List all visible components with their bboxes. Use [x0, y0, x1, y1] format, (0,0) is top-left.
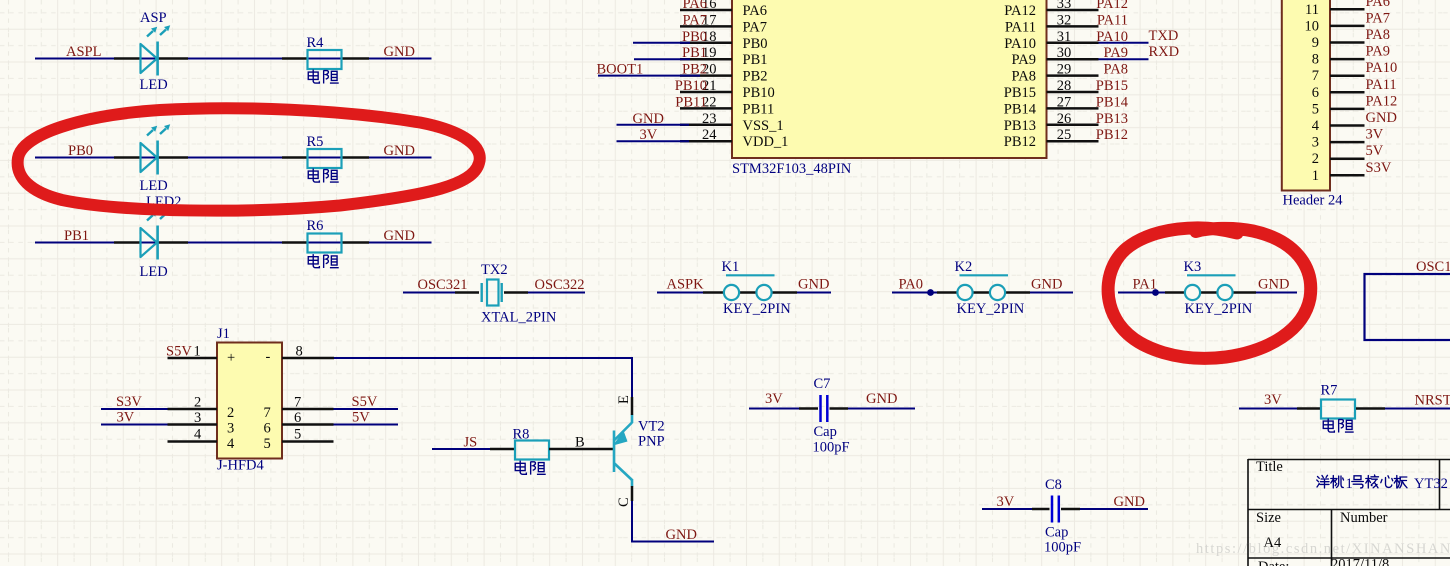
svg-text:PA7: PA7	[743, 19, 767, 35]
svg-text:PB13: PB13	[1004, 118, 1036, 134]
pin stubs LED2	[114, 156, 140, 159]
wire ASPL row1	[35, 58, 432, 60]
title block left border	[1247, 459, 1249, 566]
svg-text:PB12: PB12	[1004, 134, 1036, 150]
svg-text:28: 28	[1057, 78, 1072, 94]
svg-text:Number: Number	[1340, 510, 1388, 526]
svg-text:PA7: PA7	[683, 12, 707, 28]
svg-text:PA9: PA9	[1104, 45, 1128, 61]
svg-text:100pF: 100pF	[1044, 540, 1081, 556]
svg-text:PB15: PB15	[1096, 78, 1128, 94]
svg-text:PB2: PB2	[743, 69, 768, 85]
svg-text:24: 24	[702, 127, 717, 143]
svg-text:GND: GND	[384, 143, 415, 159]
svg-text:GND: GND	[1258, 277, 1289, 293]
svg-text:https://blog.csdn.net/XINANSHA: https://blog.csdn.net/XINANSHAN	[1196, 541, 1450, 557]
wire JS	[432, 448, 490, 450]
header net labels	[1366, 0, 1398, 176]
svg-text:PB2: PB2	[682, 62, 707, 78]
svg-text:3V: 3V	[1264, 392, 1282, 408]
svg-text:PA10: PA10	[1096, 29, 1128, 45]
svg-text:R4: R4	[307, 35, 325, 51]
svg-text:GND: GND	[798, 277, 829, 293]
svg-text:26: 26	[1057, 111, 1072, 127]
svg-text:OSC322: OSC322	[535, 277, 585, 293]
svg-text:2: 2	[1312, 151, 1319, 167]
svg-text:PB0: PB0	[682, 29, 707, 45]
svg-text:R8: R8	[513, 427, 530, 443]
svg-text:4: 4	[227, 436, 235, 452]
svg-text:KEY_2PIN: KEY_2PIN	[1185, 301, 1253, 317]
svg-text:5V: 5V	[1366, 143, 1384, 159]
wire GND C8	[1061, 508, 1080, 511]
svg-text:ASPK: ASPK	[667, 277, 705, 293]
svg-text:100pF: 100pF	[813, 440, 850, 456]
svg-text:C: C	[616, 497, 632, 507]
svg-text:5: 5	[264, 436, 271, 452]
svg-text:J-HFD4: J-HFD4	[217, 458, 264, 474]
svg-text:OSC321: OSC321	[418, 277, 468, 293]
value 电阻 R7	[1323, 418, 1353, 432]
svg-text:XTAL_2PIN: XTAL_2PIN	[481, 310, 557, 326]
title block low border	[1248, 557, 1450, 559]
pin stubs LED1	[114, 57, 140, 60]
svg-text:PB10: PB10	[743, 85, 775, 101]
wire 5V right	[334, 424, 399, 426]
svg-text:J1: J1	[217, 326, 230, 342]
svg-text:OSC1: OSC1	[1416, 259, 1450, 275]
svg-text:Title: Title	[1256, 459, 1283, 475]
svg-text:PB11: PB11	[743, 101, 775, 117]
title block divider	[1331, 510, 1333, 566]
svg-text:K2: K2	[955, 259, 973, 275]
svg-text:GND: GND	[1366, 110, 1397, 126]
svg-text:3V: 3V	[640, 127, 658, 143]
value 电阻 R6	[308, 254, 338, 268]
svg-text:GND: GND	[666, 527, 697, 543]
svg-text:6: 6	[1312, 85, 1319, 101]
wire 3V C7	[749, 408, 799, 410]
svg-text:R5: R5	[307, 134, 324, 150]
chip pin names left U1	[743, 3, 789, 150]
left net labels U1	[675, 0, 707, 110]
svg-text:5: 5	[294, 427, 301, 443]
svg-text:5V: 5V	[352, 410, 370, 426]
svg-text:VDD_1: VDD_1	[743, 134, 789, 150]
svg-text:GND: GND	[633, 111, 664, 127]
svg-text:C7: C7	[814, 376, 831, 392]
svg-text:9: 9	[1312, 35, 1319, 51]
svg-text:2: 2	[227, 405, 234, 421]
key K1 symbol	[724, 275, 775, 300]
J1 pin6 wire	[282, 423, 334, 426]
J1 pin3 wire	[168, 423, 218, 426]
resistor R7	[1321, 400, 1355, 419]
wire 3V VDD	[617, 140, 690, 142]
svg-text:K1: K1	[722, 259, 740, 275]
svg-text:ASPL: ASPL	[66, 44, 101, 60]
wire S3V	[101, 408, 168, 410]
wire GND VSS	[617, 124, 690, 126]
svg-text:23: 23	[702, 111, 717, 127]
left pin stubs U1	[680, 10, 732, 141]
svg-text:PB11: PB11	[675, 94, 707, 110]
VT2 collector pin black	[631, 486, 634, 501]
svg-text:PB1: PB1	[64, 228, 89, 244]
svg-text:3: 3	[227, 421, 234, 437]
svg-text:PA12: PA12	[1366, 93, 1398, 109]
svg-text:PA6: PA6	[1366, 0, 1390, 10]
svg-text:3V: 3V	[1366, 127, 1384, 143]
svg-text:PA6: PA6	[683, 0, 707, 12]
svg-text:JS: JS	[464, 435, 478, 451]
value 电阻 R5	[308, 168, 338, 182]
value 电阻 R8	[515, 461, 545, 475]
right net labels U1	[1096, 0, 1129, 143]
svg-text:KEY_2PIN: KEY_2PIN	[723, 301, 791, 317]
right pin numbers U1	[1057, 0, 1072, 143]
svg-text:PB12: PB12	[1096, 127, 1128, 143]
svg-text:3V: 3V	[117, 410, 135, 426]
header body	[1282, 0, 1330, 191]
wire TXD	[1099, 42, 1149, 44]
svg-text:YT32: YT32	[1414, 476, 1448, 492]
svg-text:30: 30	[1057, 45, 1072, 61]
svg-text:C8: C8	[1045, 477, 1062, 493]
svg-text:S5V: S5V	[352, 394, 378, 410]
J1 body	[217, 343, 282, 459]
svg-text:GND: GND	[1114, 494, 1145, 510]
svg-text:+: +	[227, 350, 235, 366]
wire OSC321	[403, 292, 455, 294]
svg-text:BOOT1: BOOT1	[597, 62, 644, 78]
pin stubs LED3	[114, 241, 140, 244]
resistor R6	[308, 234, 342, 253]
svg-text:STM32F103_48PIN: STM32F103_48PIN	[732, 161, 852, 177]
J1 pin1 wire	[168, 357, 218, 360]
red marker circle K3	[1108, 228, 1311, 358]
svg-text:GND: GND	[866, 391, 897, 407]
wire 3V J1	[101, 424, 168, 426]
svg-text:LED: LED	[140, 178, 168, 194]
svg-text:S5V: S5V	[166, 344, 192, 360]
J1 pin8 wire	[282, 357, 334, 360]
svg-text:PB13: PB13	[1096, 111, 1128, 127]
svg-text:TX2: TX2	[481, 262, 508, 278]
svg-text:PA8: PA8	[1104, 62, 1128, 78]
junction dot K3	[1152, 289, 1159, 296]
svg-text:VSS_1: VSS_1	[743, 118, 784, 134]
svg-text:33: 33	[1057, 0, 1072, 12]
capacitor C7 symbol	[821, 395, 828, 422]
svg-text:1: 1	[194, 344, 201, 360]
wire NRST	[1356, 407, 1385, 410]
J1 pin4 wire	[168, 440, 218, 443]
svg-text:KEY_2PIN: KEY_2PIN	[957, 301, 1025, 317]
key K3 symbol	[1185, 275, 1236, 300]
svg-text:3: 3	[1312, 135, 1319, 151]
pin stubs R6	[282, 241, 307, 244]
svg-text:PA11: PA11	[1005, 19, 1036, 35]
title block mid border	[1248, 509, 1450, 511]
svg-text:PA6: PA6	[743, 3, 767, 19]
svg-text:S3V: S3V	[116, 394, 142, 410]
svg-text:8: 8	[296, 344, 303, 360]
svg-text:R6: R6	[307, 218, 324, 234]
svg-text:E: E	[616, 395, 632, 404]
svg-text:PA8: PA8	[1366, 27, 1390, 43]
svg-text:PB14: PB14	[1096, 94, 1129, 110]
svg-text:1: 1	[1312, 168, 1319, 184]
J1 pin7 wire	[282, 408, 334, 411]
svg-text:PNP: PNP	[638, 434, 665, 450]
component box OSC1	[1365, 274, 1450, 340]
wire PA1	[1118, 292, 1165, 294]
svg-text:GND: GND	[1031, 277, 1062, 293]
svg-text:B: B	[575, 435, 585, 451]
pin stubs R5	[282, 156, 307, 159]
svg-text:PB14: PB14	[1004, 101, 1037, 117]
VT2 emitter arrow	[613, 431, 628, 446]
wire B base	[549, 448, 613, 451]
svg-text:R7: R7	[1321, 383, 1338, 399]
svg-text:3V: 3V	[997, 494, 1015, 510]
svg-text:27: 27	[1057, 94, 1072, 110]
capacitor C8 symbol	[1052, 496, 1059, 523]
svg-text:PA11: PA11	[1097, 12, 1128, 28]
svg-text:PA12: PA12	[1004, 3, 1036, 19]
title block top border	[1248, 459, 1450, 461]
svg-text:3: 3	[194, 410, 201, 426]
svg-text:2: 2	[194, 395, 201, 411]
VT2 emitter pin black	[631, 397, 634, 415]
chip body U1	[732, 0, 1047, 158]
transistor VT2	[614, 415, 632, 487]
header pin stubs	[1330, 9, 1365, 175]
svg-text:ASP: ASP	[140, 10, 167, 26]
svg-text:PA9: PA9	[1012, 52, 1036, 68]
wire 3V C8	[982, 508, 1032, 510]
svg-text:25: 25	[1057, 127, 1072, 143]
svg-text:2017/11/8: 2017/11/8	[1331, 557, 1389, 566]
wire PB1 row3	[35, 242, 432, 244]
svg-text:PA1: PA1	[1133, 277, 1157, 293]
svg-text:Date:: Date:	[1258, 559, 1289, 566]
svg-text:PB1: PB1	[682, 45, 707, 61]
svg-text:LED: LED	[140, 77, 168, 93]
svg-text:K3: K3	[1184, 259, 1202, 275]
right pin stubs U1	[1047, 10, 1099, 141]
svg-text:PB0: PB0	[68, 143, 93, 159]
svg-text:8: 8	[1312, 52, 1319, 68]
chip pin names right U1	[1004, 3, 1037, 150]
J1 pin2 wire	[168, 408, 218, 411]
svg-text:GND: GND	[384, 228, 415, 244]
svg-text:PA0: PA0	[899, 277, 923, 293]
svg-text:PB1: PB1	[743, 52, 768, 68]
wire collector to GND	[632, 501, 714, 542]
svg-text:10: 10	[1305, 18, 1320, 34]
svg-text:PB10: PB10	[675, 78, 707, 94]
svg-text:Cap: Cap	[1045, 525, 1068, 541]
svg-text:PB0: PB0	[743, 36, 768, 52]
value 电阻 R4	[308, 69, 338, 83]
svg-text:6: 6	[294, 410, 301, 426]
resistor R5	[308, 149, 342, 168]
svg-text:PA7: PA7	[1366, 10, 1390, 26]
svg-text:PA10: PA10	[1366, 60, 1398, 76]
wire PB0 to chip	[633, 42, 690, 44]
svg-text:NRST: NRST	[1415, 393, 1450, 409]
svg-text:PA12: PA12	[1096, 0, 1128, 12]
svg-text:1: 1	[1346, 476, 1353, 492]
crystal TX2 symbol	[481, 283, 483, 302]
svg-text:PA11: PA11	[1366, 77, 1397, 93]
wire BOOT1	[598, 75, 700, 77]
wire PB1 to chip	[634, 58, 690, 60]
svg-text:4: 4	[194, 427, 202, 443]
wire 3V R7	[1239, 408, 1297, 410]
wire RXD	[1099, 58, 1149, 60]
header pin numbers	[1305, 2, 1320, 184]
junction dot K2	[927, 289, 934, 296]
wire PA0	[892, 292, 937, 294]
J1 inside numbers	[227, 405, 271, 452]
svg-text:7: 7	[264, 405, 271, 421]
LED D2 symbol	[141, 124, 171, 174]
title text 洋桃1号核心板 YT32	[1317, 475, 1329, 488]
svg-text:32: 32	[1057, 12, 1072, 28]
red marker ellipse PB0 row	[18, 108, 480, 210]
wire J1 pin8 to VT2 emitter	[334, 358, 632, 398]
wire S5V right	[334, 408, 399, 410]
LED D1 symbol	[141, 25, 171, 75]
svg-text:PA10: PA10	[1004, 36, 1036, 52]
wire OSC322	[504, 291, 528, 294]
LED D3 symbol	[141, 209, 171, 259]
key K2 symbol	[957, 275, 1008, 300]
svg-text:PA9: PA9	[1366, 44, 1390, 60]
svg-text:TXD: TXD	[1149, 28, 1179, 44]
svg-text:11: 11	[1305, 2, 1319, 18]
pin stubs R4	[282, 57, 307, 60]
svg-text:Size: Size	[1256, 510, 1281, 526]
svg-text:4: 4	[1312, 118, 1320, 134]
wire ASPK	[657, 292, 703, 294]
left pin numbers U1	[702, 0, 717, 143]
svg-text:VT2: VT2	[638, 419, 665, 435]
svg-text:7: 7	[294, 395, 301, 411]
svg-text:5: 5	[1312, 101, 1319, 117]
svg-text:RXD: RXD	[1149, 44, 1180, 60]
svg-text:7: 7	[1312, 68, 1319, 84]
wire GND C7	[830, 407, 849, 410]
svg-text:Header 24: Header 24	[1283, 193, 1344, 209]
svg-text:Cap: Cap	[814, 424, 837, 440]
svg-text:PA8: PA8	[1012, 69, 1036, 85]
svg-text:S3V: S3V	[1366, 160, 1392, 176]
svg-text:31: 31	[1057, 29, 1072, 45]
svg-text:29: 29	[1057, 62, 1072, 78]
resistor R4	[308, 50, 342, 69]
resistor R8	[515, 441, 549, 460]
svg-text:-: -	[266, 349, 271, 365]
svg-text:GND: GND	[384, 44, 415, 60]
J1 pin5 wire	[282, 440, 334, 443]
svg-text:6: 6	[264, 421, 271, 437]
svg-text:LED: LED	[140, 264, 168, 280]
svg-text:3V: 3V	[765, 391, 783, 407]
svg-text:PB15: PB15	[1004, 85, 1036, 101]
wire PB0 row2	[35, 157, 432, 159]
